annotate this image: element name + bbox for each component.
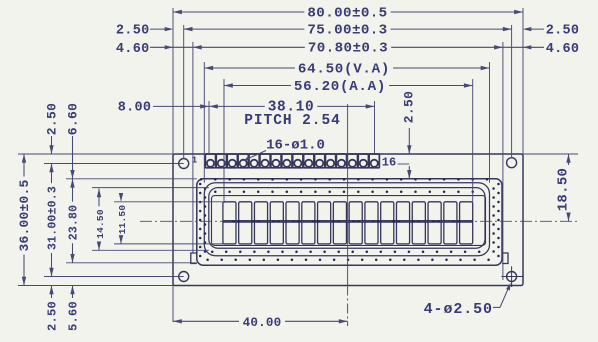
dimension 36.00±0.5 [23,154,25,177]
extension hole left up [183,25,185,159]
svg-text:56.20(A.A): 56.20(A.A) [294,79,386,95]
extension pin16 [374,101,376,154]
pin 2 [216,154,226,168]
svg-text:14.50: 14.50 [95,209,106,239]
extension PCB left down [172,286,174,323]
display window outer [204,183,489,256]
pin 4 [238,154,248,168]
character cell 4 [270,202,283,244]
character row divider bold line [223,220,473,223]
pin 16 leader [398,163,410,165]
label 2.50 upper-left [45,103,60,154]
extension bezel-tab left up [192,42,194,253]
pin 15 [358,154,368,168]
extension pin1 [208,101,210,154]
character cell 11 [381,202,394,244]
pin 16 [369,154,379,168]
extension PCB top edge sides [18,153,173,155]
svg-text:2.50: 2.50 [46,301,60,331]
svg-text:11.50: 11.50 [117,205,128,235]
svg-text:2.50: 2.50 [116,23,150,38]
bezel stipple dots [199,178,500,261]
character cell 13 [412,202,425,244]
svg-text:16-ø1.0: 16-ø1.0 [266,137,325,153]
dimension 56.20 (A.A) [224,85,291,87]
dimension 11.50 [120,201,122,203]
extension hole row bottom [44,276,184,278]
svg-text:PITCH 2.54: PITCH 2.54 [244,113,341,129]
pin 8 [282,154,292,168]
mounting hole bottom-left [179,272,189,282]
svg-text:6.60: 6.60 [66,103,81,135]
display window inner [209,188,485,249]
label 2.50 lower-left [46,286,60,332]
dimension 40.00 [173,316,348,330]
extension window inner top [92,187,209,189]
svg-text:16: 16 [382,156,396,170]
extension hole row top [44,163,184,165]
bezel outline [197,179,502,265]
PCB outline [173,154,523,286]
pin 11 [315,154,325,168]
label 4.60 top-left leader [116,42,193,57]
bezel tab left [191,253,197,264]
extension cell bottom [114,243,223,245]
svg-text:18.50: 18.50 [555,168,571,212]
label 2.50 pin-to-bezel [402,91,417,179]
extension bezel top [66,178,197,180]
label 2.50 top-right leader [523,23,580,38]
bezel tab right [502,253,508,264]
label 2.50 top-left leader [116,23,173,38]
extension bezel-tab right [502,42,504,280]
svg-text:4.60: 4.60 [116,42,150,57]
pin 6 [260,154,270,168]
dimension 80.00±0.5 [173,11,304,13]
svg-text:70.80±0.3: 70.80±0.3 [308,41,388,57]
svg-text:2.50: 2.50 [45,103,60,135]
svg-text:80.00±0.5: 80.00±0.5 [307,5,387,21]
pin 13 [336,154,346,168]
extension window outer left [203,62,205,183]
label 16-ø1.0 with leader [243,137,325,161]
character cell 8 [333,202,346,244]
character cell 1 [223,202,236,244]
label 5.60 lower-left [67,286,81,332]
dimension 23.80 [72,179,74,202]
extension PCB left edge up [172,8,174,154]
character cell 10 [365,202,378,244]
svg-text:75.00±0.3: 75.00±0.3 [307,22,387,38]
active area border [212,196,486,246]
character cell 9 [349,202,362,244]
character cell 6 [302,202,315,244]
character cell 3 [254,202,267,244]
svg-text:31.00±0.3: 31.00±0.3 [47,186,60,250]
pin 12 [325,154,335,168]
extension window inner bottom [92,249,209,251]
dimension 14.50 [98,189,100,207]
dimension 18.50 right [555,154,571,221]
extension active area right [472,79,474,202]
svg-text:64.50(V.A): 64.50(V.A) [298,61,390,77]
character cell 5 [286,202,299,244]
dimension 64.50 (V.A) [204,67,295,69]
extension window outer right [489,62,491,183]
label 8.00 leader [118,101,209,116]
svg-text:8.00: 8.00 [118,101,152,116]
svg-text:23.80: 23.80 [68,205,81,241]
character cell 7 [318,202,331,244]
extension PCB bottom edge left [18,285,173,287]
mounting hole bottom-right [501,266,523,287]
svg-text:36.00±0.5: 36.00±0.5 [17,179,32,251]
pin 9 [293,154,303,168]
mounting hole top-right [507,158,517,168]
svg-text:40.00: 40.00 [243,316,282,330]
label 4.60 top-right leader [503,42,579,57]
pin 10 [304,154,314,168]
character cell 14 [428,202,441,244]
extension hole right up [511,25,513,158]
extension active area left [223,79,225,203]
dimension 38.10 [209,105,265,107]
vertical centerline [347,104,349,286]
dimension 70.80±0.3 [193,46,305,48]
extension bezel bottom [66,262,197,264]
character cell 15 [444,202,457,244]
character cell 16 [460,202,473,244]
pin 7 [271,154,281,168]
svg-text:4.60: 4.60 [546,42,580,57]
pin 3 [227,154,237,168]
label 6.60 upper-left [66,103,81,179]
mounting hole top-left [179,159,189,169]
dimension 75.00±0.3 [184,28,305,30]
extension PCB right edge up [522,8,524,154]
svg-text:5.60: 5.60 [67,301,81,331]
svg-text:2.50: 2.50 [402,91,417,123]
character cell 12 [396,202,409,244]
extension cell top [114,201,223,203]
pin 1 [205,154,215,168]
character cell 2 [239,202,252,244]
svg-text:4-ø2.50: 4-ø2.50 [424,301,493,318]
svg-text:2.50: 2.50 [546,23,580,38]
dimension 31.00±0.3 [51,164,53,184]
pin 5 [249,154,259,168]
horizontal centerline [140,220,578,222]
pin 14 [347,154,357,168]
label 4-ø2.50 with leader [424,283,511,318]
